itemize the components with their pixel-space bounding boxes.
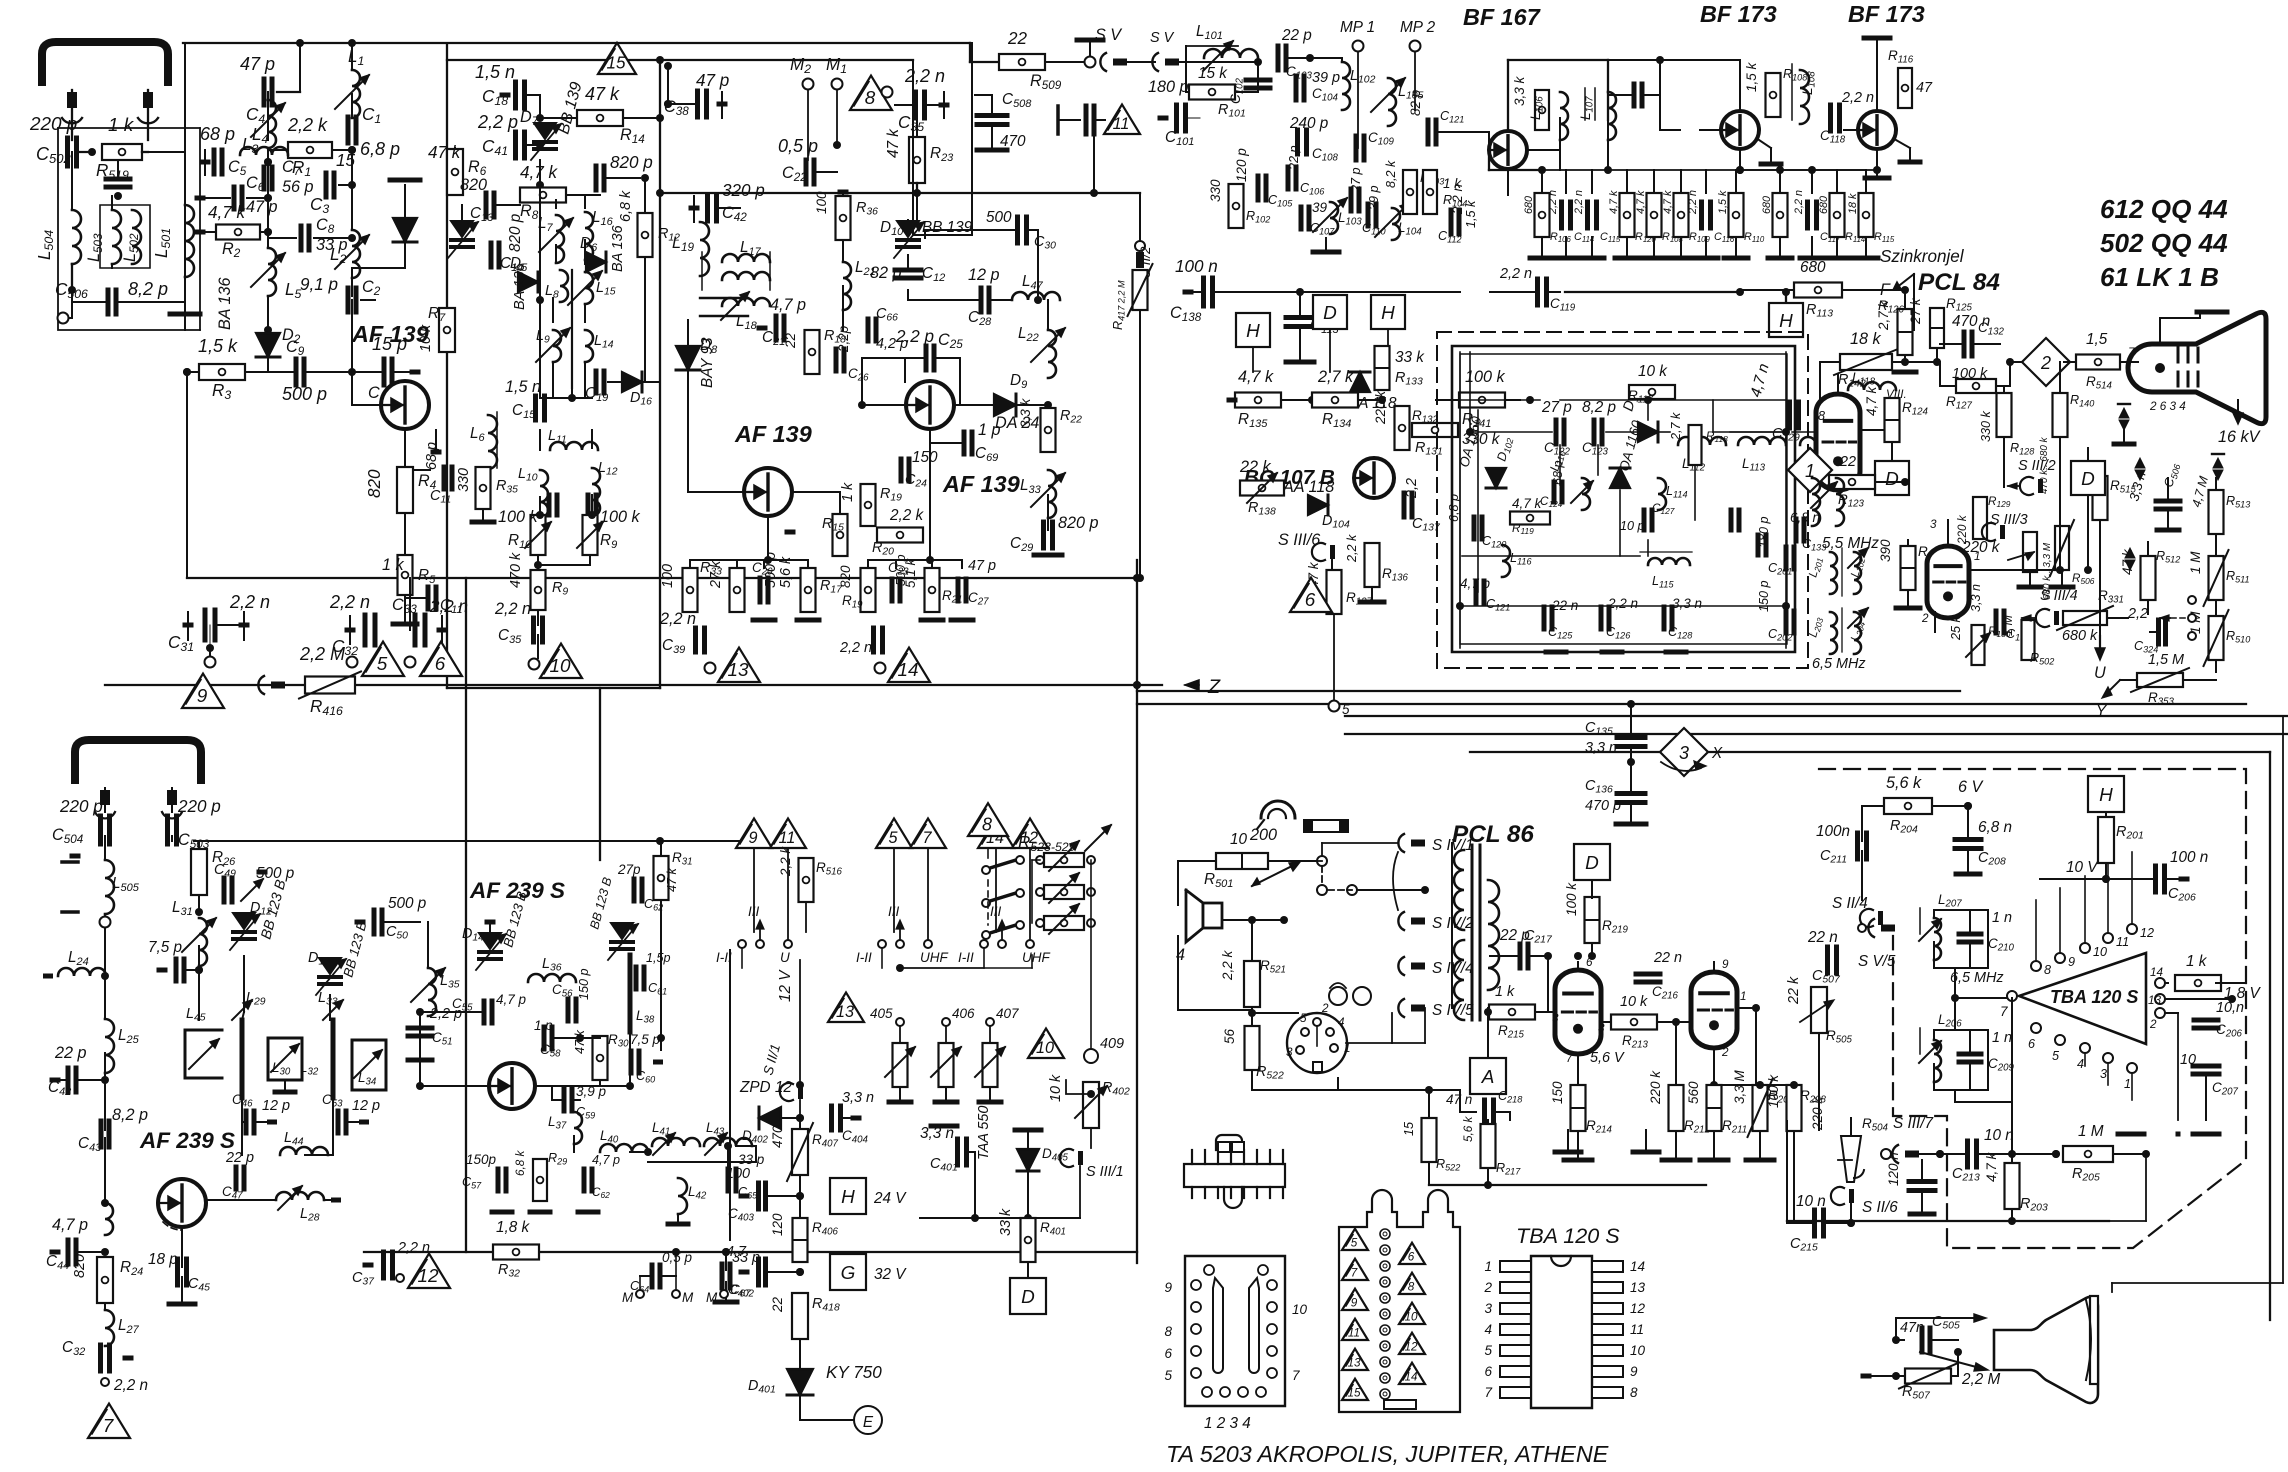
node E circle bbox=[854, 1406, 882, 1434]
inductor L40 bbox=[600, 1144, 648, 1152]
svg-text:6: 6 bbox=[2028, 1037, 2035, 1051]
ground R17 bbox=[797, 618, 819, 623]
diode D2 BA136 bbox=[256, 333, 280, 357]
capacitor C66 4.2p bbox=[866, 319, 871, 341]
wire if bus 292 bbox=[1565, 291, 1740, 293]
resistor R217 5.6k bbox=[1481, 1124, 1496, 1168]
inductor L114 bbox=[1658, 478, 1666, 510]
svg-text:16 kV: 16 kV bbox=[2218, 428, 2262, 446]
connector pcb bbox=[1185, 1256, 1285, 1406]
svg-text:8: 8 bbox=[1408, 1280, 1415, 1293]
inductor L207 tank bbox=[1934, 910, 1988, 968]
bar indicator bbox=[1304, 820, 1348, 832]
svg-text:100 k: 100 k bbox=[1952, 366, 1988, 382]
antenna A1 bbox=[42, 42, 168, 82]
svg-text:10,n: 10,n bbox=[2216, 1000, 2244, 1016]
capacitor C507 22n bbox=[1825, 947, 1830, 973]
wire coils join bbox=[71, 264, 73, 290]
pot R504 220k bbox=[1841, 1136, 1861, 1182]
wire audio rails bbox=[1451, 843, 1453, 1008]
svg-text:5: 5 bbox=[1342, 702, 1350, 717]
node ant out bbox=[58, 313, 69, 324]
inductor L117 dashed bbox=[1800, 437, 1848, 445]
svg-text:22: 22 bbox=[1007, 29, 1028, 48]
svg-text:Szinkronjel: Szinkronjel bbox=[1880, 247, 1965, 266]
capacitor C15 1.5n bbox=[533, 396, 538, 420]
inductor L43 var bbox=[704, 1138, 752, 1146]
svg-text:39 p: 39 p bbox=[1367, 185, 1381, 210]
svg-text:14: 14 bbox=[1630, 1259, 1645, 1274]
svg-text:502 QQ 44: 502 QQ 44 bbox=[2100, 228, 2228, 258]
capacitor C125 22n bbox=[1542, 607, 1547, 629]
svg-text:2,2 n: 2,2 n bbox=[229, 592, 270, 612]
capacitor C_117 IF ladder bbox=[1805, 202, 1810, 228]
svg-text:25 k: 25 k bbox=[1949, 615, 1963, 641]
resistor R502 1M bbox=[2022, 620, 2035, 660]
svg-text:12 p: 12 p bbox=[352, 1098, 380, 1114]
wire crt line bbox=[2010, 361, 2028, 363]
svg-text:6,5 MHz: 6,5 MHz bbox=[1950, 970, 2004, 986]
svg-text:6,8 p: 6,8 p bbox=[360, 139, 400, 159]
svg-text:4,2 p: 4,2 p bbox=[876, 336, 908, 352]
wire coil box bbox=[100, 205, 150, 268]
wire bf167 base link bbox=[1488, 150, 1490, 170]
svg-text:150: 150 bbox=[1550, 1081, 1565, 1104]
tube PCL86 a bbox=[1555, 970, 1601, 1054]
black arrows crt1 bbox=[2119, 408, 2129, 418]
svg-text:Y: Y bbox=[2096, 703, 2108, 720]
box D a bbox=[1313, 295, 1347, 329]
node SV plug1 bbox=[1085, 57, 1096, 68]
inductor L44 bbox=[280, 1147, 328, 1155]
wire vhf t2 col bbox=[792, 491, 840, 493]
wire det v1460 bbox=[1459, 352, 1461, 648]
resistor R113 680 bbox=[1794, 283, 1842, 298]
resistor R_106 IF ladder bbox=[1535, 193, 1550, 237]
capacitor C122 27p bbox=[1554, 420, 1559, 444]
wire vhf v540 bbox=[539, 185, 541, 398]
inductor L5 var bbox=[268, 248, 276, 296]
svg-text:47 k: 47 k bbox=[665, 867, 679, 892]
node I-II UHF b bbox=[878, 940, 886, 948]
capacitor C53 12p bbox=[336, 1111, 341, 1133]
wire dashed core bbox=[571, 270, 573, 388]
resistor R219 100k bbox=[1585, 897, 1600, 943]
resistor R108b 1.5k bbox=[1766, 73, 1781, 117]
resistor R507 2.2M bbox=[1905, 1369, 1951, 1384]
capacitor C402 4.7u bbox=[756, 1259, 761, 1285]
svg-text:2: 2 bbox=[2040, 353, 2051, 373]
pot R505 22k bbox=[1811, 987, 1827, 1033]
capacitor 120n bbox=[1909, 1179, 1935, 1184]
capacitor C134 3.3n bbox=[1994, 611, 1999, 633]
resistor R1 2.2k bbox=[288, 142, 332, 158]
capacitor C_116 IF ladder bbox=[1699, 202, 1704, 228]
resistor R23 47k bbox=[909, 137, 925, 183]
diode D6 BA136 bbox=[586, 252, 606, 272]
resistor R213 10k bbox=[1611, 1015, 1657, 1030]
svg-text:6: 6 bbox=[1484, 1364, 1492, 1379]
svg-text:11: 11 bbox=[2116, 935, 2129, 949]
resistor R416 2.2M bbox=[305, 677, 355, 694]
varactor D7 BB139 bbox=[534, 123, 556, 139]
capacitor C138 100n bbox=[1201, 278, 1206, 306]
svg-text:405: 405 bbox=[870, 1006, 893, 1021]
svg-text:7: 7 bbox=[1292, 1368, 1300, 1383]
svg-text:10 p: 10 p bbox=[1620, 519, 1645, 533]
box H b bbox=[1371, 295, 1405, 329]
resistor R104 1k bbox=[1423, 170, 1437, 214]
node I-II UHF c bbox=[980, 940, 988, 948]
resistor R208 100k bbox=[1787, 1085, 1802, 1131]
inductor L101 var bbox=[1204, 49, 1258, 58]
capacitor C60 7.5p bbox=[629, 1051, 634, 1073]
resistor R15 bbox=[833, 514, 848, 556]
wire block frame bbox=[58, 128, 200, 330]
svg-text:18 k: 18 k bbox=[1850, 330, 1882, 348]
capacitor C24 150 bbox=[899, 459, 904, 481]
capacitor C13 820 bbox=[484, 193, 489, 217]
svg-text:13: 13 bbox=[1347, 1356, 1361, 1369]
svg-text:12: 12 bbox=[1630, 1301, 1646, 1316]
svg-text:2: 2 bbox=[1921, 612, 1929, 625]
wire L33 bar bbox=[331, 1020, 336, 1098]
capacitor 820p a bbox=[594, 166, 599, 190]
inductor L15 var bbox=[585, 272, 593, 304]
svg-text:820 p: 820 p bbox=[1058, 514, 1099, 532]
resistor R510 1M bbox=[2209, 616, 2224, 660]
svg-text:12: 12 bbox=[1404, 1340, 1418, 1353]
svg-text:7: 7 bbox=[922, 829, 932, 847]
svg-text:27 p: 27 p bbox=[1541, 399, 1572, 416]
capacitor C26 2.2p bbox=[834, 349, 839, 371]
capacitor C108 240p bbox=[1295, 130, 1300, 154]
svg-text:10: 10 bbox=[1230, 831, 1248, 848]
svg-text:1 M: 1 M bbox=[2078, 1123, 2104, 1140]
capacitor C62b 4.7p bbox=[582, 1169, 587, 1191]
wire sw drop3 bbox=[995, 848, 997, 932]
svg-text:G: G bbox=[841, 1263, 856, 1284]
svg-text:240 p: 240 p bbox=[1289, 115, 1329, 132]
svg-text:2,2 k: 2,2 k bbox=[778, 845, 793, 877]
svg-text:2: 2 bbox=[1483, 1280, 1492, 1295]
triangle mark 14 bbox=[888, 648, 930, 682]
svg-text:UHF: UHF bbox=[1022, 950, 1050, 965]
svg-text:82 p: 82 p bbox=[1408, 89, 1423, 116]
diode D5 BA136 bbox=[518, 272, 538, 292]
wire pots bbox=[537, 555, 539, 565]
node MP1 bbox=[1353, 41, 1364, 52]
svg-text:9: 9 bbox=[1164, 1280, 1172, 1295]
svg-text:1: 1 bbox=[1484, 1259, 1492, 1274]
svg-text:3: 3 bbox=[1286, 1046, 1293, 1059]
resistor R509 22 bbox=[999, 54, 1045, 70]
resistor R407 470 bbox=[792, 1129, 808, 1175]
svg-text:BAY 93: BAY 93 bbox=[699, 337, 716, 388]
capacitor C62 27p bbox=[632, 879, 637, 901]
svg-text:330: 330 bbox=[1208, 179, 1223, 202]
inductor L31 var bbox=[199, 918, 207, 966]
wire right bus y734 bbox=[1345, 733, 2288, 735]
transistor AF239S T1 bbox=[158, 1179, 206, 1227]
capacitor C65 33p bbox=[726, 1169, 731, 1191]
svg-text:100 k: 100 k bbox=[1465, 368, 1506, 386]
svg-text:AF 139: AF 139 bbox=[734, 421, 812, 447]
wire pcl86 bus y1185 bbox=[1429, 1184, 1706, 1186]
capacitor C_114 IF ladder bbox=[1559, 202, 1564, 228]
wire sII1 column bbox=[465, 1058, 467, 1086]
inductor L505 bbox=[105, 860, 114, 914]
svg-text:12: 12 bbox=[2140, 926, 2154, 940]
capacitor C58 1p bbox=[542, 1027, 547, 1049]
resistor R203 4.7k bbox=[2005, 1163, 2020, 1209]
wire det extra1 bbox=[1477, 410, 1479, 592]
svg-text:470: 470 bbox=[1000, 133, 1026, 150]
capacitor C105 120p bbox=[1256, 176, 1261, 200]
svg-text:H: H bbox=[2099, 785, 2113, 806]
capacitor C208 6.8n bbox=[1955, 837, 1981, 842]
resistor 680 IF ladder bbox=[1773, 193, 1788, 237]
svg-text:10: 10 bbox=[1630, 1343, 1646, 1358]
capacitor C27 47p bbox=[956, 579, 961, 601]
resistor R12 6.8k bbox=[638, 213, 653, 257]
svg-text:AF 239 S: AF 239 S bbox=[139, 1128, 235, 1153]
svg-text:100 n: 100 n bbox=[1175, 257, 1218, 276]
svg-text:1,5: 1,5 bbox=[2086, 331, 2108, 348]
svg-text:2,2 n: 2,2 n bbox=[113, 1377, 148, 1394]
svg-text:3: 3 bbox=[2100, 1067, 2107, 1081]
resistor R125 27k bbox=[1930, 308, 1944, 348]
wire R4 down bbox=[404, 513, 406, 560]
svg-text:680: 680 bbox=[1800, 259, 1826, 276]
resistor R4 820 bbox=[397, 467, 413, 513]
svg-text:12 p: 12 p bbox=[262, 1098, 290, 1114]
wire transformer taps bbox=[1425, 842, 1452, 844]
capacitor C12 82p bbox=[895, 268, 921, 273]
svg-text:14: 14 bbox=[1404, 1370, 1418, 1383]
svg-text:2,2 M: 2,2 M bbox=[1961, 1371, 2001, 1388]
diamond 1 mark bbox=[1788, 448, 1832, 492]
svg-text:409: 409 bbox=[1100, 1036, 1124, 1052]
resistor R132 220k bbox=[1395, 406, 1410, 450]
svg-text:4,7 p: 4,7 p bbox=[496, 992, 527, 1007]
svg-text:3: 3 bbox=[1679, 743, 1689, 763]
wire det extra3 bbox=[1712, 400, 1714, 432]
svg-text:2,2 k: 2,2 k bbox=[1220, 949, 1235, 981]
capacitor C216 22n bbox=[1636, 972, 1660, 977]
svg-text:U: U bbox=[2094, 664, 2106, 682]
inductor L503 bbox=[112, 210, 121, 264]
wire r521 to din bbox=[1252, 1012, 1298, 1014]
wire uhf v199 bbox=[198, 946, 200, 1020]
svg-text:X: X bbox=[1711, 745, 1723, 762]
headphone circles bbox=[1329, 987, 1347, 1005]
capacitor C11b 68p bbox=[442, 467, 447, 489]
inductor L206 tank bbox=[1934, 1030, 1988, 1090]
wiper dashed bbox=[2188, 596, 2196, 604]
inductor L25 bbox=[105, 1019, 114, 1073]
resistor R140 470-680k bbox=[2053, 393, 2068, 437]
svg-text:180 p: 180 p bbox=[1148, 78, 1189, 96]
triangle mark 9b bbox=[736, 818, 772, 848]
diamond 3 mark bbox=[1660, 728, 1708, 776]
ground t3a bbox=[921, 618, 943, 623]
resistor R20 2.2k bbox=[877, 528, 923, 543]
svg-text:2,2 n: 2,2 n bbox=[1687, 190, 1699, 215]
capacitor C111 top bbox=[1632, 84, 1637, 106]
svg-text:61 LK 1 B: 61 LK 1 B bbox=[2100, 262, 2219, 292]
wire x1094 drop bbox=[1093, 128, 1095, 193]
node I-II UHF a bbox=[738, 940, 746, 948]
resistor R_108 IF ladder bbox=[1647, 193, 1662, 237]
svg-text:S II/6: S II/6 bbox=[1862, 1199, 1898, 1216]
svg-text:47: 47 bbox=[1916, 80, 1933, 96]
wire tuner frame bottom bbox=[447, 687, 660, 689]
resistor R126 2.7k bbox=[1898, 309, 1913, 355]
wire spk to siv1 bbox=[1316, 860, 1322, 862]
node M pair bbox=[636, 1290, 644, 1298]
svg-text:33 k: 33 k bbox=[998, 1208, 1014, 1236]
wire sw drop1 bbox=[753, 848, 755, 932]
node Z junction bbox=[1133, 681, 1141, 689]
svg-text:4,7 p: 4,7 p bbox=[770, 296, 806, 314]
capacitor 7.5p bbox=[174, 959, 179, 981]
resistor R118 2.7k bbox=[1689, 425, 1702, 465]
capacitor C37 2.2n bbox=[381, 1252, 386, 1278]
wire uhf left rail bbox=[104, 928, 106, 1019]
svg-text:150: 150 bbox=[912, 449, 938, 466]
resistor R519 1k bbox=[102, 144, 142, 160]
capacitor pair mid bbox=[547, 495, 552, 515]
svg-text:H: H bbox=[1779, 311, 1793, 332]
svg-text:22: 22 bbox=[1839, 454, 1856, 470]
switch contacts bbox=[990, 860, 1016, 868]
capacitor C121b 4.7p bbox=[1474, 581, 1479, 603]
triangle mark 7b bbox=[910, 818, 946, 848]
CRT small bbox=[1994, 1297, 2098, 1403]
svg-text:2,2 n: 2,2 n bbox=[659, 610, 696, 628]
svg-text:3,3 k: 3,3 k bbox=[1512, 75, 1527, 106]
capacitor C5 68p bbox=[212, 150, 217, 174]
svg-text:4,7 k: 4,7 k bbox=[1608, 190, 1620, 214]
wire T3 collector bbox=[954, 404, 985, 406]
svg-text:1,5 k: 1,5 k bbox=[1744, 61, 1759, 92]
capacitor C44 4.7p bbox=[66, 1240, 71, 1264]
resistor R353 1.5M bbox=[2137, 673, 2183, 687]
svg-text:VIII.: VIII. bbox=[1886, 388, 1907, 401]
capacitor C51 2.2p bbox=[408, 1026, 432, 1031]
resistor R122 390 bbox=[1901, 546, 1916, 590]
wire c138 bus bbox=[1300, 291, 1460, 293]
inductor L17 pair bbox=[722, 254, 770, 262]
wire pot bank out bbox=[1031, 955, 1033, 968]
capacitor C126 2.2n bbox=[1599, 607, 1604, 629]
svg-text:10 k: 10 k bbox=[1048, 1074, 1064, 1102]
svg-text:120 p: 120 p bbox=[1234, 148, 1249, 182]
svg-text:5,6 k: 5,6 k bbox=[1886, 774, 1922, 792]
resistor R117 10k bbox=[1629, 385, 1675, 399]
resistor R417 2.2M bbox=[1133, 270, 1148, 310]
svg-text:22 n: 22 n bbox=[1807, 929, 1838, 946]
svg-text:32 V: 32 V bbox=[874, 1266, 907, 1283]
svg-text:220 p: 220 p bbox=[59, 797, 103, 816]
svg-text:4,7 p: 4,7 p bbox=[592, 1153, 620, 1167]
capacitor C31 2.2n bbox=[203, 610, 208, 640]
wire right bus y752 bbox=[1470, 751, 2270, 753]
wire r516 bbox=[805, 841, 807, 858]
wire siv loops bbox=[1393, 852, 1398, 910]
node uhf in circ bbox=[100, 917, 111, 928]
capacitor C64 0.5p bbox=[650, 1265, 655, 1287]
resistor R202 1k bbox=[2175, 975, 2221, 991]
plate left pair bbox=[62, 860, 78, 864]
svg-text:AF 139: AF 139 bbox=[942, 471, 1020, 497]
svg-text:100n: 100n bbox=[1816, 823, 1850, 840]
node det dots bbox=[1466, 428, 1474, 436]
capacitor C106 22p bbox=[1286, 167, 1291, 189]
svg-text:47 p: 47 p bbox=[240, 54, 275, 74]
svg-text:820 p: 820 p bbox=[610, 153, 653, 172]
svg-text:6,8 p: 6,8 p bbox=[1447, 494, 1461, 522]
svg-text:13: 13 bbox=[1630, 1280, 1646, 1295]
svg-text:150 p: 150 p bbox=[577, 968, 591, 1000]
wire pcl86 grid link bbox=[1676, 1021, 1691, 1023]
svg-text:2,2 n: 2,2 n bbox=[329, 592, 370, 612]
svg-text:PCL 84: PCL 84 bbox=[1918, 269, 2000, 296]
inductor L21 bbox=[843, 262, 851, 310]
svg-text:1: 1 bbox=[1344, 1042, 1351, 1055]
svg-text:3,3 n: 3,3 n bbox=[1969, 584, 1983, 612]
svg-text:H: H bbox=[1246, 321, 1260, 342]
wire det extra4 bbox=[1647, 540, 1649, 556]
svg-text:5,6 k: 5,6 k bbox=[1462, 1116, 1475, 1142]
black arrows crt3 bbox=[2213, 458, 2223, 468]
svg-text:47 k: 47 k bbox=[428, 143, 462, 162]
varactor D10 BB139 bbox=[897, 221, 919, 237]
svg-text:5: 5 bbox=[377, 654, 388, 675]
capacitor C25 2.2p bbox=[924, 346, 929, 370]
inductor L108 dashed bbox=[1800, 70, 1809, 124]
capacitor C7 56p bbox=[262, 167, 267, 189]
svg-text:BF 173: BF 173 bbox=[1700, 1, 1777, 27]
resistor R515 10k bbox=[2093, 476, 2108, 520]
svg-text:4,7 k: 4,7 k bbox=[1238, 368, 1274, 386]
wire R5 gnd bbox=[404, 595, 406, 622]
inductor L45 bracket bbox=[185, 1030, 222, 1078]
triangle mark 13 bbox=[718, 648, 760, 682]
svg-text:820 p: 820 p bbox=[507, 213, 524, 252]
inductor L16 bbox=[585, 212, 593, 260]
resistor R119 4.7k bbox=[1510, 512, 1550, 525]
svg-text:2,2 n: 2,2 n bbox=[1607, 596, 1638, 611]
diode D AA118 bbox=[1350, 372, 1370, 392]
wire spk bus bbox=[1252, 919, 1425, 921]
ground sup1 bbox=[1567, 1130, 1569, 1150]
capacitor C_115 IF ladder bbox=[1585, 202, 1590, 228]
svg-text:1 k: 1 k bbox=[2186, 953, 2208, 970]
svg-text:18 k: 18 k bbox=[1847, 193, 1859, 214]
inductor L35 var bbox=[428, 968, 436, 1016]
switch S IV/1 bbox=[1398, 834, 1404, 852]
svg-text:BA 136: BA 136 bbox=[216, 278, 234, 331]
triangle mark 6b bbox=[1290, 578, 1332, 612]
inductor L33 var bbox=[1048, 470, 1056, 518]
capacitor C57 150p bbox=[496, 1169, 501, 1191]
capacitor C218 47n bbox=[1482, 1100, 1487, 1124]
wire tba pin12 up bbox=[2131, 769, 2133, 852]
svg-text:8,2 p: 8,2 p bbox=[112, 1106, 148, 1124]
wire uhf r31 col bbox=[660, 900, 662, 1050]
